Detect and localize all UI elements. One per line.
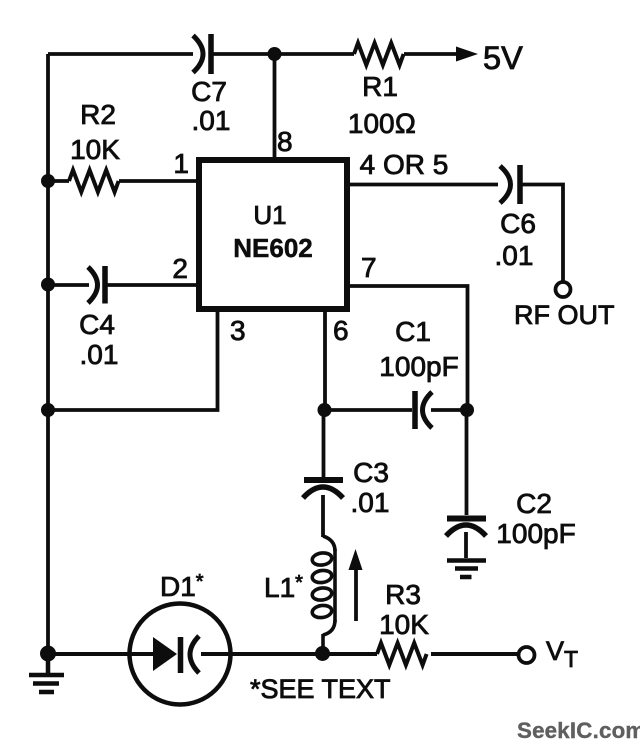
svg-text:10K: 10K [379, 609, 429, 640]
wire bottom rail left segment [48, 652, 156, 656]
svg-text:10K: 10K [70, 134, 120, 165]
wire pin 4/5 to C6 [347, 183, 498, 187]
node VT terminal [519, 647, 535, 663]
node junction bottom-left [40, 646, 56, 662]
wire rail to C4 [48, 283, 89, 287]
svg-text:.01: .01 [351, 487, 390, 518]
ground bottom left [29, 653, 64, 692]
svg-text:U1: U1 [253, 200, 286, 230]
node junction rail/pin3 [41, 403, 55, 417]
resistor R3 [377, 643, 427, 665]
svg-text:D1*: D1* [160, 571, 204, 602]
svg-text:100pF: 100pF [379, 351, 458, 382]
svg-text:R2: R2 [80, 99, 116, 130]
diode D1 cathode bar [178, 637, 184, 673]
wire top rail from left corner to C7 [48, 52, 193, 56]
svg-text:100Ω: 100Ω [348, 108, 416, 139]
svg-text:NE602: NE602 [233, 233, 313, 263]
svg-text:VT: VT [546, 636, 578, 672]
svg-text:*SEE TEXT: *SEE TEXT [250, 674, 391, 704]
svg-text:R1: R1 [362, 71, 398, 102]
resistor R1 [354, 43, 404, 65]
wire R1 to 5V arrow [404, 52, 458, 56]
wire C6 to RF OUT terminal [522, 185, 563, 283]
svg-text:L1*: L1* [264, 572, 303, 603]
resistor R2 [69, 170, 119, 192]
node junction C1/pin7/C2 [460, 403, 474, 417]
wire junction down to C3 [322, 410, 326, 477]
svg-text:5V: 5V [483, 40, 523, 76]
svg-text:1: 1 [173, 148, 189, 179]
diode D1 triangle anode [153, 637, 177, 671]
wire bottom rail middle segment [201, 652, 377, 656]
svg-text:7: 7 [361, 252, 377, 283]
wire C4 to pin 2 [107, 283, 199, 287]
wire pin 3 down and left to rail [48, 309, 218, 410]
wire R2 to pin 1 [119, 179, 199, 183]
wire pin 8 vertical [273, 54, 277, 160]
ground under C2 [447, 561, 486, 578]
node junction rail/R2 [41, 174, 55, 188]
svg-text:R3: R3 [385, 579, 421, 610]
svg-text:4 OR 5: 4 OR 5 [360, 149, 449, 180]
wire C1 to right junction [431, 408, 467, 412]
wire left vertical rail [46, 54, 50, 650]
diode D1 varactor circle [130, 604, 231, 705]
wire C7 to pin-8 junction [213, 52, 354, 56]
wire rail to R2 (pin 1 net) [48, 179, 69, 183]
svg-text:C4: C4 [79, 309, 115, 340]
svg-text:C3: C3 [353, 457, 389, 488]
capacitor C1 [415, 391, 432, 429]
svg-text:.01: .01 [192, 105, 231, 136]
svg-text:C7: C7 [191, 76, 227, 107]
capacitor C2 [446, 519, 486, 537]
svg-text:3: 3 [230, 315, 246, 346]
svg-text:C1: C1 [395, 316, 431, 347]
svg-text:6: 6 [333, 315, 349, 346]
svg-text:2: 2 [172, 253, 188, 284]
svg-text:C6: C6 [500, 208, 536, 239]
svg-text:.01: .01 [495, 240, 534, 271]
power 5V arrow [456, 47, 478, 62]
op-amp U1 NE602 IC body [199, 160, 347, 309]
wire C3 to L1 [321, 495, 325, 537]
capacitor C7 [193, 34, 211, 74]
svg-text:.01: .01 [80, 339, 119, 370]
svg-text:SeekIC.com: SeekIC.com [517, 718, 640, 743]
svg-text:C2: C2 [516, 488, 552, 519]
wire pin6 junction to C1 [325, 408, 412, 412]
diode D1 varactor arc [190, 636, 199, 673]
node junction L1/bottom rail [315, 646, 330, 661]
arrow tuning indicator beside L1 [349, 549, 363, 621]
capacitor C4 [88, 266, 105, 304]
wire junction down to C2 [465, 410, 469, 515]
wire pin 7 right and down [347, 286, 468, 406]
inductor L1 [311, 536, 335, 649]
wire pin 6 down [323, 309, 327, 406]
capacitor C3 [303, 480, 343, 498]
node junction rail/C4 [41, 278, 55, 292]
node junction at top of pin 8 [268, 47, 282, 61]
node junction pin6/C1/C3 [318, 403, 332, 417]
svg-text:100pF: 100pF [496, 518, 575, 549]
node RF OUT terminal [556, 282, 571, 297]
capacitor C6 [500, 165, 520, 204]
wire bottom rail right segment [431, 652, 519, 656]
svg-text:8: 8 [277, 126, 293, 157]
wire C2 to ground [464, 532, 468, 558]
svg-text:RF OUT: RF OUT [514, 300, 615, 330]
